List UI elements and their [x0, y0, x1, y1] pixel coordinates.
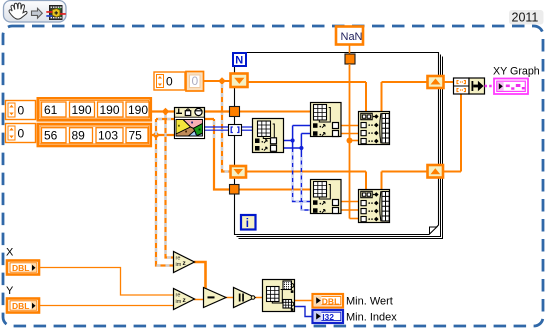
svg-text:Y: Y	[6, 285, 14, 297]
I32 min index indicator	[313, 310, 344, 323]
wire: left node index output 1	[284, 126, 311, 141]
absolute value node	[234, 288, 256, 308]
svg-text:103: 103	[98, 129, 118, 143]
re-im to complex lower	[174, 289, 195, 310]
wire: empty array init to upper shift register	[204, 80, 232, 82]
svg-text:2011: 2011	[512, 11, 539, 25]
svg-text:XY Graph: XY Graph	[493, 66, 540, 78]
svg-text:i: i	[246, 218, 249, 230]
svg-text:89: 89	[72, 129, 86, 143]
X control DBL	[7, 261, 39, 275]
svg-text:N: N	[235, 55, 243, 67]
tunnel: int array left	[229, 125, 242, 136]
XY Graph terminal	[494, 79, 528, 95]
wire: array1 to icon and upper border tunnel	[151, 110, 230, 112]
mid-top index array node	[311, 103, 342, 137]
junction blue 1	[291, 138, 295, 142]
svg-text:X: X	[6, 247, 14, 259]
svg-text:Min. Index: Min. Index	[346, 312, 397, 324]
shift register right lower (up arrow)	[428, 165, 444, 178]
wire: NaN to top tunnel	[349, 45, 351, 54]
wire: lower re-im output to subtract	[194, 299, 204, 301]
custom VI icon (colorful picture)	[175, 108, 205, 139]
svg-text:re: re	[176, 256, 181, 262]
shift register left lower (down arrow)	[231, 166, 247, 178]
for-loop main border with folded corner	[235, 53, 439, 235]
array constant 2 elements 56,89,103,75	[38, 124, 151, 146]
wire: NaN vertical inside loop	[350, 64, 359, 219]
wire: array2 to icon	[151, 134, 175, 136]
left index array node	[253, 119, 284, 153]
wire: abs to array min node	[255, 297, 264, 299]
re-im to complex upper	[174, 252, 195, 273]
svg-text:61: 61	[44, 103, 58, 117]
toolbar arrow icon	[32, 8, 43, 18]
svg-text:Min. Wert: Min. Wert	[346, 296, 393, 308]
right-top build node	[359, 112, 390, 145]
svg-text:56: 56	[44, 129, 58, 143]
svg-text:DBL: DBL	[12, 263, 29, 273]
array constant 2 (y data) index box	[6, 124, 36, 143]
X control label	[6, 247, 14, 259]
wire: int array tunnel to left index node	[241, 127, 253, 130]
svg-text:DBL: DBL	[322, 296, 339, 306]
N count terminal	[233, 53, 246, 67]
wire: min value output	[295, 300, 313, 302]
wire: icon blue array output to loop tunnel	[205, 127, 229, 130]
array constant 1 elements 61,190,190,190	[38, 98, 151, 120]
subtract node	[204, 288, 227, 308]
mid-bottom index array node	[311, 180, 342, 214]
svg-text:190: 190	[72, 103, 92, 117]
array min-max node	[263, 280, 295, 312]
label Min. Wert	[346, 296, 393, 308]
toolbar VI film icon	[46, 6, 66, 20]
shift register right upper (up arrow)	[428, 76, 444, 88]
tunnel: NaN through top border	[345, 54, 355, 64]
wire: mid-bottom node outputs to right-bottom node	[341, 202, 358, 211]
wire: array2 branch under icon to lower tunnel	[156, 119, 230, 190]
wire: upper shift register to right node (top run)	[248, 82, 366, 112]
for-loop frame: stacked page lines	[237, 55, 443, 239]
empty array constant index box	[154, 72, 185, 90]
2011 version label	[509, 10, 544, 25]
tunnel: upper left filled	[230, 107, 240, 117]
wire: X to lower re-im	[39, 268, 174, 296]
Y control label	[6, 285, 14, 297]
wire: lower right SR up to bundle second input	[443, 94, 461, 172]
wire: subtract to abs	[226, 297, 235, 299]
bundle node	[454, 78, 485, 94]
label Min. Index	[346, 312, 397, 324]
XY Graph label	[493, 66, 540, 78]
svg-text:0: 0	[18, 127, 25, 141]
svg-text:190: 190	[128, 103, 148, 117]
Y control DBL	[7, 299, 39, 313]
wire: min index output	[295, 307, 313, 317]
i iteration terminal	[241, 215, 256, 230]
svg-text:0: 0	[192, 74, 199, 88]
wire: lower right node output up to right shift register	[382, 172, 429, 191]
toolbar panel	[4, 1, 67, 23]
svg-text:0: 0	[18, 104, 25, 118]
wire: mid-top node outputs to right-top node	[341, 126, 358, 134]
DBL min value indicator	[313, 294, 344, 308]
toolbar hand icon	[9, 3, 27, 19]
empty array constant dimmed element	[186, 72, 204, 92]
wire: index 2 branch down to mid-bottom node (dashed)	[301, 148, 311, 210]
tunnel: lower left filled	[230, 185, 240, 195]
junction blue 2	[299, 146, 303, 150]
svg-text:im: im	[176, 262, 182, 268]
wire: lower shift register to right node (bottom run)	[246, 172, 366, 191]
wire: upper tunnel to mid-top index node	[239, 111, 311, 113]
svg-text:75: 75	[129, 129, 143, 143]
svg-text:0: 0	[166, 75, 173, 89]
svg-text:I32: I32	[322, 312, 334, 322]
svg-text:190: 190	[100, 103, 120, 117]
svg-text:im: im	[176, 299, 182, 305]
junction on init wire	[218, 77, 226, 85]
svg-text:DBL: DBL	[12, 301, 29, 311]
wire: index 1 branch down to mid-bottom node (dashed)	[293, 141, 311, 202]
wire: array2 branch down to re-im converter (selected, dashed)	[156, 119, 174, 266]
svg-text:re: re	[176, 293, 181, 299]
wire: upper right node output up to right shift register	[382, 82, 429, 112]
junction on NaN wire	[347, 138, 353, 144]
wire: init branch down to lower shift register (selected, dashed)	[222, 81, 231, 172]
right-bottom build node	[359, 190, 390, 223]
shift register left upper (down arrow)	[231, 74, 248, 88]
junction on array2 wire	[152, 131, 160, 139]
wire: Y to lower re-im	[39, 305, 174, 307]
wire: upper re-im output down to subtract	[194, 262, 206, 292]
array constant 1 (x data) index box	[6, 101, 36, 120]
svg-text:NaN: NaN	[341, 31, 363, 43]
wire: array1 branch down to re-im converter (selected, dashed)	[166, 112, 175, 258]
wire: left node index output 2	[284, 134, 311, 149]
wire: bundle to XY graph (cluster, dashed magenta)	[485, 85, 496, 88]
NaN constant	[336, 27, 363, 45]
wire: upper right SR to bundle	[443, 81, 454, 83]
wire: lower tunnel to mid-bottom index node	[239, 189, 311, 191]
junction on array1 wire	[162, 108, 170, 116]
